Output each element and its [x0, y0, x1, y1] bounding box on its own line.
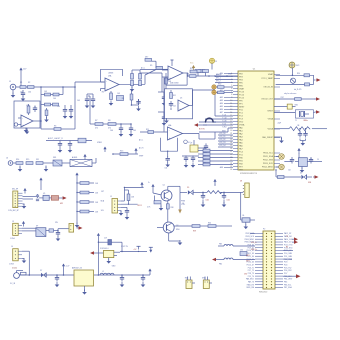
wire	[199, 121, 233, 123]
svg-text:PC14: PC14	[239, 94, 245, 96]
pulldown	[178, 192, 185, 213]
wire U6 in	[140, 131, 168, 133]
svg-text:PC15: PC15	[239, 97, 245, 99]
op-amp U3A	[105, 75, 119, 92]
svg-text:CON_MIC_8P: CON_MIC_8P	[8, 210, 20, 212]
resistor R3	[54, 126, 61, 131]
P2 left pins	[245, 233, 263, 289]
svg-text:T_DIN: T_DIN	[222, 120, 226, 122]
ground	[300, 139, 306, 146]
port	[286, 240, 298, 248]
svg-text:R5: R5	[102, 92, 104, 94]
capacitor C23	[222, 192, 230, 207]
svg-text:PA14_CLK: PA14_CLK	[284, 238, 293, 241]
svg-text:T_CS: T_CS	[222, 114, 226, 116]
wire USB row	[275, 169, 277, 177]
power	[148, 182, 155, 190]
power circle 5V	[209, 58, 217, 69]
component C30	[240, 249, 247, 255]
capacitor C5	[132, 99, 141, 111]
svg-text:SPI_2: SPI_2	[216, 81, 221, 83]
svg-text:26: 26	[230, 148, 232, 150]
wire net1	[218, 136, 233, 138]
resistor R46	[46, 229, 54, 232]
transistor Q1	[161, 184, 172, 201]
component U15	[299, 153, 308, 167]
yellow part SW2	[185, 277, 195, 289]
resistor R48	[27, 104, 30, 115]
svg-text:17: 17	[230, 121, 232, 123]
esd D13	[276, 164, 284, 170]
yellow part U8	[240, 181, 249, 198]
connector J5	[110, 196, 118, 213]
ground	[130, 86, 135, 92]
ground	[11, 90, 16, 98]
svg-text:LCD_D0: LCD_D0	[219, 133, 226, 135]
capacitor C12	[204, 144, 209, 156]
svg-text:VSSA: VSSA	[239, 123, 245, 126]
svg-text:PB15_MOSI: PB15_MOSI	[245, 242, 255, 244]
wire row113	[274, 112, 295, 114]
svg-text:CON3: CON3	[9, 264, 14, 266]
capacitor C21	[307, 157, 313, 164]
wire	[121, 203, 138, 205]
svg-text:PB6_SCL: PB6_SCL	[284, 284, 291, 286]
label	[218, 84, 222, 86]
label	[43, 193, 45, 195]
wire	[193, 90, 216, 116]
svg-text:LCD_D2: LCD_D2	[219, 139, 226, 141]
svg-text:RST: RST	[281, 97, 284, 99]
svg-text:V+: V+	[148, 182, 150, 184]
yellow part SW1	[274, 104, 298, 109]
connector P2	[263, 229, 275, 290]
svg-text:FB4: FB4	[219, 264, 222, 266]
svg-text:NRST: NRST	[239, 106, 245, 108]
svg-text:USB: USB	[308, 182, 311, 184]
wire	[180, 191, 187, 193]
svg-text:23: 23	[230, 139, 232, 141]
wire	[16, 86, 41, 88]
wire base Q1	[153, 190, 162, 196]
resistor R22	[198, 155, 233, 159]
wire collector Q1	[168, 186, 180, 192]
resistor R42	[76, 191, 99, 194]
svg-text:SW1: SW1	[295, 104, 299, 106]
svg-text:VSSA: VSSA	[268, 118, 274, 121]
svg-text:T_CLK: T_CLK	[222, 117, 227, 119]
wire loop	[98, 239, 122, 254]
svg-text:R51: R51	[173, 95, 176, 97]
svg-text:104: 104	[57, 106, 60, 108]
svg-text:16: 16	[230, 118, 232, 120]
port MIC	[59, 196, 67, 205]
resistor R31	[305, 83, 310, 86]
svg-text:BL: BL	[243, 215, 245, 217]
svg-text:AD6: AD6	[220, 108, 223, 111]
svg-text:PD8_D0: PD8_D0	[248, 245, 254, 247]
resistor R21	[198, 152, 233, 156]
svg-text:AD8: AD8	[220, 166, 223, 169]
svg-text:J5: J5	[110, 196, 112, 198]
wire	[116, 123, 132, 125]
svg-text:STM32F103RCT6: STM32F103RCT6	[240, 173, 258, 175]
port	[316, 78, 321, 82]
svg-text:PD6_RX2: PD6_RX2	[284, 270, 292, 272]
resistor R30	[297, 73, 310, 77]
capacitor C25	[56, 230, 61, 241]
op-amp U2A box	[14, 101, 40, 128]
svg-text:4: 4	[231, 82, 232, 84]
inductor L1	[100, 271, 114, 275]
node A	[40, 86, 42, 129]
svg-text:OSC32_OUT: OSC32_OUT	[261, 99, 274, 101]
capacitor C24	[121, 207, 129, 219]
wire	[22, 204, 27, 209]
yellow part D11	[212, 90, 216, 94]
U1 label	[240, 173, 258, 175]
power D3V3	[289, 62, 299, 68]
power	[97, 233, 100, 239]
wire net3	[218, 142, 233, 144]
component R59	[44, 108, 49, 122]
svg-text:CTRL: CTRL	[181, 204, 185, 206]
resistor R40	[208, 223, 216, 228]
port	[212, 258, 224, 262]
svg-text:R8: R8	[108, 120, 110, 122]
svg-text:MIC_8P: MIC_8P	[12, 188, 19, 190]
svg-text:R39: R39	[193, 231, 196, 233]
wire	[140, 66, 168, 92]
wire	[54, 222, 59, 231]
resistor zigzag R33	[274, 125, 327, 131]
wire	[33, 120, 42, 122]
power	[213, 179, 216, 186]
resistor R44	[76, 210, 99, 213]
svg-text:-: -	[169, 68, 170, 71]
svg-text:PB12_NSS: PB12_NSS	[263, 160, 274, 162]
resistor pack RP1	[49, 196, 58, 201]
svg-text:LM358: LM358	[108, 73, 113, 75]
svg-text:PA12_DP: PA12_DP	[284, 232, 292, 235]
wire	[216, 225, 232, 227]
svg-text:SP: SP	[36, 225, 38, 227]
svg-text:PB7_SDA: PB7_SDA	[284, 286, 292, 289]
capacitor C11	[199, 70, 206, 73]
resistor R14	[16, 159, 23, 164]
wire	[22, 228, 36, 231]
power	[22, 221, 25, 227]
capacitor C4	[91, 94, 96, 108]
power circle	[184, 140, 191, 144]
svg-text:3V3: 3V3	[296, 65, 299, 67]
svg-text:5V0: 5V0	[244, 274, 247, 276]
svg-text:SPI_1: SPI_1	[216, 78, 221, 80]
port	[314, 110, 321, 114]
wire	[182, 155, 199, 157]
svg-text:U8: U8	[240, 181, 242, 183]
ground	[25, 128, 30, 134]
capacitor C1	[21, 86, 26, 101]
component U9	[39, 195, 49, 200]
op-amp U4A	[168, 60, 183, 80]
svg-text:105: 105	[133, 130, 136, 132]
svg-text:PD4: PD4	[284, 264, 287, 266]
wire	[283, 258, 292, 260]
svg-text:R19: R19	[190, 68, 193, 70]
wire	[121, 187, 144, 201]
svg-text:VOUT 5V: VOUT 5V	[121, 246, 129, 248]
resistor R4a	[131, 70, 140, 86]
transistor Q2	[163, 222, 179, 233]
svg-text:103: 103	[117, 93, 120, 95]
svg-text:INT: INT	[101, 191, 104, 193]
capacitor C6	[110, 124, 123, 137]
U12 ground	[106, 258, 116, 268]
connector J9	[69, 224, 74, 233]
wire	[18, 117, 21, 119]
component U13	[242, 218, 250, 229]
power	[134, 148, 137, 154]
svg-text:VBAT: VBAT	[239, 87, 245, 90]
svg-text:-: -	[169, 129, 170, 132]
bead FB3	[218, 244, 255, 247]
capacitor C2	[33, 106, 37, 113]
wire row y226	[174, 225, 192, 227]
svg-text:SW2: SW2	[185, 278, 189, 280]
svg-text:8: 8	[231, 94, 232, 96]
resistor R20	[198, 148, 233, 152]
power VCC	[19, 68, 27, 88]
U8 pins	[241, 185, 244, 195]
svg-text:10: 10	[230, 100, 232, 102]
svg-text:PA10_RX: PA10_RX	[247, 283, 255, 286]
label KEY	[138, 205, 142, 207]
svg-text:PB11_SDA: PB11_SDA	[263, 155, 274, 158]
svg-text:21: 21	[230, 133, 232, 135]
svg-text:AD4: AD4	[220, 102, 223, 105]
regulator U11	[72, 267, 94, 286]
capacitor C29	[104, 237, 112, 245]
wire	[101, 89, 106, 92]
svg-text:R2: R2	[28, 82, 30, 84]
svg-text:PD7: PD7	[284, 273, 287, 275]
svg-text:AD3: AD3	[220, 99, 223, 102]
capacitor C8	[158, 92, 169, 106]
power	[83, 154, 86, 160]
svg-text:4K7: 4K7	[145, 57, 148, 59]
svg-text:U5: U5	[180, 98, 182, 100]
svg-text:FB1: FB1	[53, 157, 56, 159]
svg-text:L1: L1	[102, 271, 104, 273]
svg-text:BOOT0: BOOT0	[199, 129, 205, 131]
svg-text:VREF: VREF	[139, 156, 143, 158]
svg-text:R40: R40	[208, 223, 211, 225]
svg-text:R13: R13	[120, 151, 123, 153]
svg-text:PD9_D1: PD9_D1	[248, 247, 254, 249]
diode D4	[300, 173, 307, 180]
resistor R8	[108, 120, 116, 129]
esd D12	[276, 154, 284, 160]
ground	[75, 222, 80, 228]
U1 mid net stubs	[220, 72, 233, 169]
bundle labels	[222, 114, 227, 132]
capacitor C26	[55, 274, 60, 287]
J2 label	[8, 210, 20, 212]
capacitor C10	[165, 151, 171, 169]
svg-text:PA9_TX: PA9_TX	[248, 280, 255, 283]
svg-text:PB5: PB5	[284, 281, 287, 283]
svg-text:TX: TX	[286, 236, 288, 238]
svg-text:AD2: AD2	[220, 96, 223, 99]
capacitor C7	[129, 124, 136, 137]
svg-text:PWM: PWM	[181, 201, 186, 203]
capacitor C18 22p	[298, 128, 302, 138]
wire	[61, 87, 75, 129]
svg-text:32: 32	[230, 166, 232, 168]
svg-text:5: 5	[231, 85, 232, 87]
wire diagonal	[145, 70, 156, 85]
svg-text:PD10_D2: PD10_D2	[247, 250, 254, 252]
J4 label	[9, 264, 14, 266]
wire pin4	[215, 81, 233, 83]
resistor R55	[278, 176, 301, 179]
svg-text:KEY1: KEY1	[246, 255, 250, 257]
svg-text:Y1: Y1	[295, 120, 297, 122]
op-amp U2A	[21, 104, 33, 127]
component FB1	[53, 157, 62, 166]
svg-text:472: 472	[95, 128, 98, 130]
resistor R49	[36, 159, 43, 164]
wire	[183, 132, 216, 139]
svg-text:J3: J3	[12, 221, 14, 223]
wire	[194, 192, 225, 194]
svg-text:5V: 5V	[317, 159, 319, 161]
wire	[283, 250, 293, 252]
svg-text:6: 6	[231, 88, 232, 90]
label led	[294, 89, 301, 91]
resistor R41	[76, 182, 99, 185]
power 12V	[62, 264, 70, 276]
svg-text:HDR-2X20: HDR-2X20	[259, 292, 267, 294]
power	[297, 148, 300, 154]
U1 left pins	[230, 73, 245, 171]
resistor R10	[145, 57, 156, 69]
svg-text:3: 3	[231, 79, 232, 81]
svg-text:20: 20	[230, 130, 232, 132]
capacitor C22	[201, 192, 209, 207]
label	[108, 73, 113, 75]
wire	[314, 75, 315, 84]
svg-text:PB13_SCK: PB13_SCK	[245, 236, 254, 238]
capacitor C34	[68, 141, 73, 153]
resistor R58	[41, 103, 59, 106]
yellow part U7	[190, 143, 198, 153]
svg-text:8MHz: 8MHz	[304, 120, 308, 122]
svg-text:331: 331	[36, 159, 39, 161]
resistor R53	[217, 91, 234, 94]
svg-text:PC6_T1: PC6_T1	[248, 267, 254, 269]
feedback wire	[101, 69, 123, 82]
svg-text:LCD_D3: LCD_D3	[219, 142, 226, 144]
wire	[189, 90, 193, 106]
crystal Y1 box	[295, 110, 313, 118]
label	[97, 142, 107, 152]
yellow part SW3	[202, 277, 212, 289]
svg-text:1: 1	[231, 73, 232, 75]
ground	[300, 167, 305, 173]
svg-text:PC7_T2: PC7_T2	[248, 270, 254, 272]
capacitor C38	[195, 70, 201, 77]
capacitor C20	[288, 157, 294, 172]
label 5V	[133, 249, 137, 251]
wire pin2	[215, 75, 233, 77]
svg-text:R9: R9	[150, 65, 152, 67]
op-amp U5	[178, 98, 189, 112]
capacitor C37	[169, 101, 176, 110]
svg-text:SW3: SW3	[202, 278, 206, 280]
resistor R7	[95, 120, 103, 129]
svg-text:PD11_D3: PD11_D3	[247, 253, 254, 255]
svg-text:R3: R3	[54, 126, 56, 128]
diode D7	[40, 270, 46, 277]
J5 pins	[114, 200, 121, 211]
svg-text:LCD_D4: LCD_D4	[219, 145, 226, 147]
ground	[18, 166, 23, 172]
connector J6	[6, 158, 13, 166]
port	[315, 97, 321, 101]
svg-text:PD0_CAN: PD0_CAN	[284, 252, 293, 255]
wire	[241, 211, 255, 220]
svg-text:8550: 8550	[176, 229, 180, 231]
svg-text:J6: J6	[6, 158, 8, 160]
power down sym	[137, 246, 141, 252]
svg-text:30: 30	[230, 160, 232, 162]
svg-text:-: -	[22, 117, 23, 120]
svg-text:4K7: 4K7	[203, 152, 206, 154]
svg-text:28: 28	[230, 154, 232, 156]
wire base Q2	[157, 227, 163, 229]
connector J1 audio jack	[9, 81, 16, 90]
svg-text:C29: C29	[104, 237, 107, 239]
svg-text:DC044: DC044	[12, 267, 17, 269]
wire	[194, 140, 206, 148]
wire	[250, 233, 255, 235]
component C35	[117, 93, 124, 101]
capacitor C9	[158, 112, 169, 126]
wire	[119, 84, 145, 86]
jumper arc	[205, 118, 214, 123]
J3 pins	[15, 225, 22, 234]
svg-text:DC_IN: DC_IN	[10, 283, 16, 285]
svg-text:R15: R15	[26, 159, 29, 161]
svg-text:R6: R6	[122, 98, 124, 100]
svg-text:U7: U7	[190, 143, 192, 145]
wire row	[112, 153, 138, 155]
wire	[199, 128, 233, 132]
wire	[169, 233, 183, 245]
svg-text:OSC32_IN: OSC32_IN	[263, 87, 273, 89]
resistor R15	[26, 159, 33, 164]
resistor R11	[146, 129, 154, 134]
power rail	[94, 274, 150, 276]
svg-text:PB13_SCK: PB13_SCK	[263, 163, 274, 165]
ground	[119, 210, 124, 215]
svg-text:AOUT_L AOUT_R: AOUT_L AOUT_R	[48, 137, 63, 140]
resistor R19	[190, 68, 197, 73]
label note	[284, 93, 297, 95]
label	[139, 139, 144, 158]
